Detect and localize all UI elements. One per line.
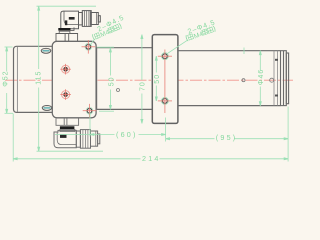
bottom plug cap (91, 131, 98, 146)
bottom nut (black) (60, 126, 75, 129)
bottom elbow label (60, 135, 67, 138)
gearbox block (52, 41, 96, 118)
dim (95) (166, 138, 289, 140)
svg-text:70: 70 (139, 81, 146, 91)
flange hole bottom (158, 97, 172, 104)
leader A to block corner hole (91, 40, 95, 45)
svg-text:214: 214 (142, 154, 161, 163)
dim Φ52 (5, 47, 14, 113)
flange plate (152, 35, 178, 124)
svg-text:(95): (95) (216, 133, 238, 142)
dim (60) (55, 134, 166, 136)
intermediate housing (97, 48, 153, 110)
green tick above small circle (243, 48, 245, 55)
block socket screw hole 1 (60, 64, 71, 75)
cylinder seam lines (273, 51, 275, 106)
label B (用M4螺钉) (185, 26, 216, 43)
top elbow connector body (61, 11, 101, 29)
bottom washer (60, 129, 75, 131)
plug collar (79, 13, 83, 25)
dim 50 (housing) (97, 47, 114, 111)
svg-text:Φ46: Φ46 (258, 69, 265, 85)
dim 214 (13, 158, 288, 160)
oval screw top (41, 48, 51, 53)
ext line flange hole down (165, 118, 167, 142)
block socket screw hole 2 (60, 89, 71, 100)
svg-text:50: 50 (154, 74, 161, 84)
dim 115 (37, 6, 104, 151)
svg-text:50: 50 (108, 77, 115, 87)
flange holes vertical centerline (164, 50, 166, 114)
small circle mid cylinder (242, 79, 245, 82)
bottom knurled ring (80, 130, 90, 149)
bottom plug tip (98, 134, 100, 144)
knurled ring (82, 11, 91, 27)
leader B to flange hole (167, 40, 187, 53)
connector washer (59, 31, 70, 33)
dim 50 (flange holes) (155, 56, 157, 101)
connector flange base (56, 34, 78, 42)
dim Φ46 (259, 51, 261, 106)
dim 70 (plate) (141, 35, 143, 124)
ext line corner hole down (89, 113, 91, 137)
bottom plug collar (76, 131, 80, 147)
small circle on housing (117, 89, 120, 92)
ext line right end (287, 107, 289, 162)
bottom elbow body (54, 130, 100, 149)
flange hole top (158, 53, 172, 60)
svg-text:(60): (60) (116, 130, 138, 139)
block corner hole top (2-Φ4.5) (82, 40, 96, 54)
oval screw bottom (42, 105, 52, 110)
label A (用M4螺钉) (92, 23, 123, 42)
ext line left end (12, 114, 14, 162)
connector label text (69, 17, 75, 20)
set screw marks on cylinder (275, 59, 278, 61)
main axis centerline (5, 79, 293, 81)
svg-text:115: 115 (35, 71, 42, 85)
block corner hole bottom (83, 104, 97, 118)
plug tip (98, 16, 100, 22)
svg-text:Φ52: Φ52 (3, 70, 10, 86)
plug cap (91, 13, 98, 25)
connector nut (black) (58, 28, 70, 31)
step right of nut (71, 27, 75, 30)
bottom connector flange base (56, 118, 79, 125)
output cylinder (178, 51, 281, 106)
small circle near end cap (270, 78, 274, 82)
motor cylinder body (14, 46, 56, 112)
motor end cap seam (16, 47, 18, 112)
end cap (281, 51, 289, 106)
